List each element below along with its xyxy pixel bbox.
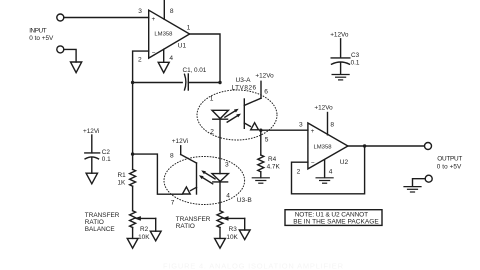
resistor R4	[258, 155, 264, 172]
wire left to C1	[133, 82, 183, 84]
svg-text:4.7K: 4.7K	[267, 164, 281, 171]
svg-text:LM358: LM358	[314, 145, 333, 151]
wire R4 to ground	[260, 172, 262, 178]
node pin 5 junction	[259, 129, 262, 132]
svg-text:U3-B: U3-B	[237, 197, 253, 204]
svg-text:INPUT: INPUT	[29, 28, 46, 35]
svg-text:3: 3	[225, 162, 229, 169]
svg-text:5: 5	[265, 137, 269, 144]
svg-text:NOTE: U1 & U2 CANNOT: NOTE: U1 & U2 CANNOT	[295, 211, 368, 218]
output ground terminal J4	[425, 175, 432, 182]
svg-text:+12Vi: +12Vi	[83, 128, 99, 135]
svg-text:10K: 10K	[138, 234, 150, 241]
svg-text:0 to +5V: 0 to +5V	[29, 35, 54, 42]
potentiometer R2	[130, 211, 136, 228]
svg-text:R2: R2	[140, 226, 149, 233]
wire terminal to earth ground	[413, 179, 426, 187]
svg-text:3: 3	[138, 8, 142, 15]
svg-text:8: 8	[170, 152, 174, 159]
svg-text:TRANSFER: TRANSFER	[176, 216, 211, 223]
node: C1 left junction	[131, 81, 134, 84]
optocoupler U3-B outline	[164, 157, 245, 205]
svg-text:1: 1	[210, 95, 214, 102]
svg-text:RATIO: RATIO	[176, 223, 195, 230]
svg-text:C2: C2	[102, 149, 111, 156]
wire pin5 to U2 +in	[261, 129, 308, 131]
ground C2	[86, 173, 97, 184]
wire supply to C2	[91, 135, 93, 153]
svg-text:8: 8	[330, 122, 334, 129]
svg-text:4: 4	[226, 192, 230, 199]
wire C1 to output node	[188, 82, 220, 84]
svg-text:R3: R3	[229, 226, 238, 233]
wire left vertical to R1	[132, 83, 134, 170]
U3-B emitter arrow	[182, 187, 190, 194]
U3-B light arrows	[203, 172, 215, 179]
input terminal J1	[57, 14, 64, 21]
svg-text:2: 2	[297, 169, 301, 176]
ground R3 wiper	[239, 230, 250, 240]
node: C1 right junction	[218, 81, 221, 84]
wire supply to C3	[340, 39, 342, 58]
wire input to U1 +in	[64, 17, 149, 19]
ground R3 bottom	[215, 238, 226, 248]
node: R1 top junction	[131, 152, 134, 155]
svg-text:3: 3	[299, 122, 303, 129]
svg-text:+12Vo: +12Vo	[330, 32, 349, 39]
R3 wiper arrow	[228, 217, 245, 219]
wire pin5 to R4	[260, 130, 262, 155]
svg-text:U1: U1	[178, 43, 187, 50]
wire LED U3-B to R3	[219, 182, 221, 211]
optocoupler U3-A outline	[197, 90, 277, 140]
svg-text:R4: R4	[268, 156, 277, 163]
svg-text:0.1: 0.1	[102, 156, 111, 163]
wire U1 output	[190, 34, 220, 83]
svg-text:8: 8	[170, 8, 174, 15]
resistor R1	[130, 169, 136, 186]
capacitor C1	[185, 74, 186, 90]
svg-text:+: +	[311, 128, 315, 135]
wire U2 output	[348, 145, 425, 147]
U3-B collector lead pin 8	[180, 146, 182, 155]
transistor U3-A	[244, 98, 261, 105]
svg-text:TRANSFER: TRANSFER	[85, 212, 120, 219]
U3-A emitter arrow	[251, 123, 259, 130]
wire R3 bottom	[219, 228, 221, 239]
wire R1 to R2	[132, 186, 134, 211]
pin 8 lead U2	[327, 113, 329, 135]
LED U3-A	[212, 110, 228, 118]
ground R2 bottom	[127, 238, 138, 248]
input ground terminal J2	[57, 46, 64, 53]
LED U3-B	[212, 174, 228, 182]
svg-text:6: 6	[264, 88, 268, 95]
svg-text:+12Vo: +12Vo	[255, 73, 274, 80]
wire C2 to ground	[91, 157, 93, 173]
ground R2 wiper	[150, 231, 161, 241]
svg-text:LM358: LM358	[154, 32, 173, 38]
svg-text:OUTPUT: OUTPUT	[437, 156, 462, 163]
capacitor C3	[331, 57, 350, 59]
ground U1 pin4	[158, 62, 169, 72]
wire R2 wiper to ground	[155, 218, 157, 231]
svg-text:2: 2	[210, 128, 214, 135]
svg-text:LTV826: LTV826	[232, 84, 257, 91]
potentiometer R3	[217, 211, 223, 228]
wire R2 bottom	[132, 228, 134, 239]
svg-text:10K: 10K	[226, 234, 238, 241]
svg-text:C3: C3	[351, 52, 360, 59]
ground (input common)	[71, 62, 82, 73]
ground R4 (earth)	[252, 178, 269, 183]
svg-text:BE IN THE SAME PACKAGE: BE IN THE SAME PACKAGE	[293, 218, 379, 225]
U3-A light arrows	[225, 110, 237, 117]
svg-text:4: 4	[169, 55, 173, 62]
wire terminal to ground	[64, 49, 76, 62]
R2 wiper arrow	[141, 217, 156, 219]
svg-text:U2: U2	[340, 159, 349, 166]
pin 4 lead U2	[324, 160, 326, 178]
svg-text:+: +	[152, 16, 156, 23]
wire C3 to ground	[340, 62, 342, 74]
note box	[285, 210, 382, 226]
ground C3 (earth)	[332, 75, 349, 80]
capacitor C2	[85, 152, 100, 154]
pin 2 wire	[133, 51, 149, 82]
svg-text:+12Vi: +12Vi	[172, 138, 188, 145]
svg-text:BALANCE: BALANCE	[85, 226, 115, 233]
svg-text:C1, 0.01: C1, 0.01	[183, 67, 207, 74]
pin 8 supply lead	[163, 0, 165, 19]
feedback wire U2	[292, 146, 365, 194]
svg-text:4: 4	[329, 169, 333, 176]
svg-text:−: −	[152, 50, 156, 57]
svg-text:R1: R1	[118, 172, 127, 179]
svg-text:2: 2	[138, 56, 142, 63]
wire LED U3-A down to U3-B LED	[219, 119, 221, 173]
svg-text:0.1: 0.1	[351, 59, 360, 66]
output terminal J3	[425, 143, 432, 150]
svg-text:1K: 1K	[118, 179, 127, 186]
ground U2 pin4 (earth)	[316, 178, 333, 183]
svg-text:0 to +5V: 0 to +5V	[437, 163, 462, 170]
transistor U3-B	[181, 155, 197, 164]
svg-text:7: 7	[171, 199, 175, 206]
wire R3 wiper to ground	[244, 218, 246, 230]
pin 4 lead	[163, 49, 165, 62]
svg-text:1: 1	[187, 25, 191, 32]
op-amp U1	[149, 10, 190, 58]
svg-text:+12Vo: +12Vo	[314, 104, 333, 111]
ground output (earth)	[404, 187, 421, 192]
U3-A collector lead pin 6	[260, 81, 262, 98]
svg-text:FIGURE 4. ANALOG ISOLATION: FIGURE 4. ANALOG ISOLATION AMPLIFIER	[163, 262, 344, 270]
op-amp U2	[308, 123, 348, 169]
node output junction	[363, 144, 366, 147]
wire R1 junction to U3-B emitter	[133, 154, 182, 194]
svg-text:RATIO: RATIO	[85, 219, 104, 226]
svg-text:−: −	[311, 160, 315, 167]
svg-text:U3-A: U3-A	[236, 77, 252, 84]
